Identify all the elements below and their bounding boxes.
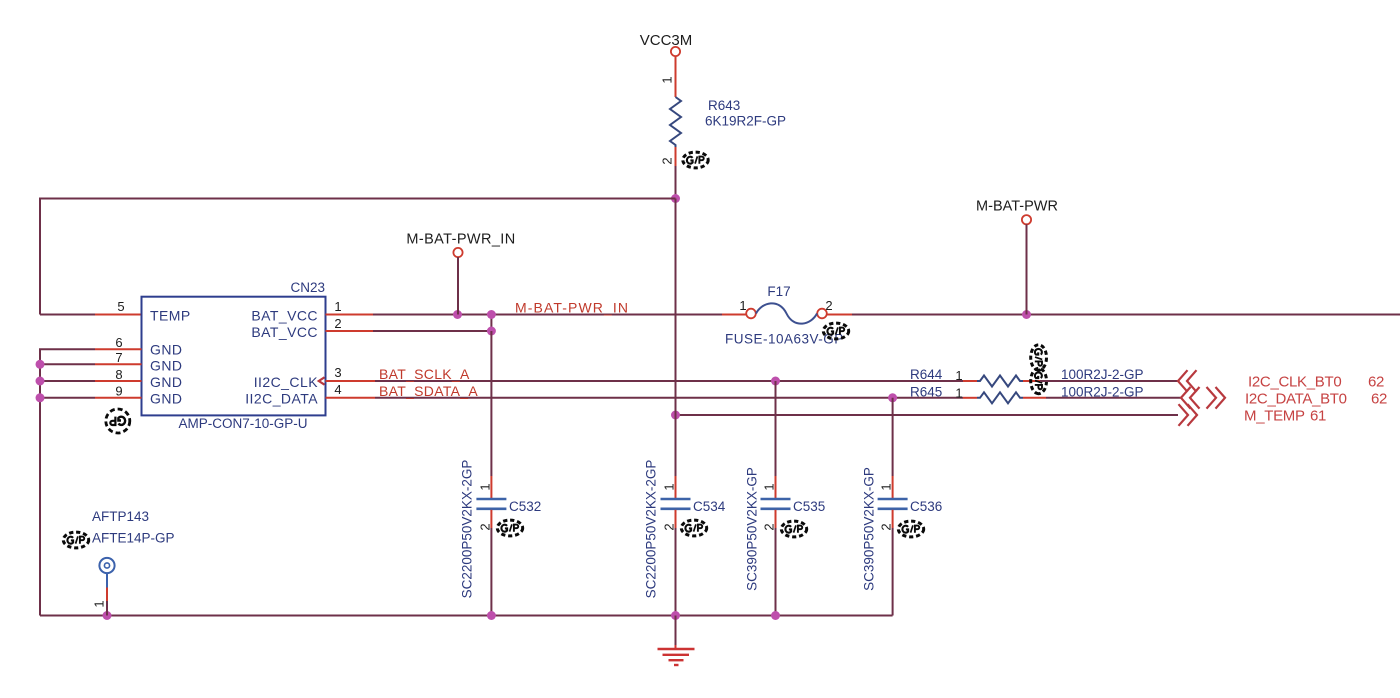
wire flag M-BAT-PWR_IN down (457, 257, 459, 315)
svg-text:BAT_VCC: BAT_VCC (251, 324, 318, 340)
svg-text:R643: R643 (708, 98, 740, 113)
GP stamp C536 (898, 521, 923, 537)
svg-text:I2C_CLK_BT0: I2C_CLK_BT0 (1248, 374, 1341, 391)
AFTP143 pin stub (106, 588, 108, 602)
wire M-BAT-PWR flag down (1026, 224, 1028, 314)
power flag M-BAT-PWR (976, 199, 1058, 225)
R644 pin2 stub (1023, 380, 1040, 382)
test point AFTP143 (99, 558, 114, 588)
node pin2/C532 (487, 327, 496, 336)
svg-text:1: 1 (762, 483, 777, 490)
svg-text:II2C_DATA: II2C_DATA (245, 391, 318, 407)
wire R644 to offpage (1040, 380, 1178, 382)
svg-text:1: 1 (477, 483, 492, 490)
wire BAT_VCC pin2 row (373, 330, 491, 332)
wire C536 to bus (892, 528, 894, 616)
wire top horizontal TEMP net (40, 199, 676, 315)
C532 pin1 stub (490, 476, 492, 498)
svg-text:C534: C534 (693, 499, 726, 514)
R645 pin1 stub (963, 397, 977, 399)
svg-text:GND: GND (150, 391, 182, 407)
svg-text:SC2200P50V2KX-2GP: SC2200P50V2KX-2GP (644, 460, 659, 599)
wire joining pin2 to rail (490, 315, 492, 332)
GP stamp C532 (497, 520, 522, 536)
svg-text:C536: C536 (910, 499, 942, 514)
C532 pin2 stub (490, 510, 492, 528)
offpage connector M_TEMP (1179, 404, 1198, 426)
GP stamp R643 (683, 152, 708, 168)
svg-text:AFTP143: AFTP143 (92, 509, 149, 524)
C535 pin1 stub (775, 476, 777, 498)
svg-text:BAT_SCLK_A: BAT_SCLK_A (379, 366, 470, 382)
offpage connector I2C_DATA_BT0 (1181, 387, 1225, 409)
svg-text:7: 7 (115, 350, 122, 365)
wire bottom GND bus (40, 615, 893, 617)
node SDATA/C536 (888, 393, 897, 402)
svg-text:1: 1 (334, 299, 341, 314)
pin 1 stub BAT_VCC (326, 314, 374, 316)
wire C536 column (892, 398, 894, 476)
wire GND row6 (40, 349, 95, 615)
svg-text:1: 1 (660, 76, 675, 83)
svg-text:II2C_CLK: II2C_CLK (254, 374, 319, 390)
svg-text:8: 8 (115, 367, 122, 382)
GP stamp F17 (823, 323, 848, 339)
wire BAT_SCLK_A row (375, 380, 963, 382)
GP stamp R644 (1031, 345, 1047, 370)
wire BAT_SDATA_A row (375, 397, 963, 399)
svg-text:SC2200P50V2KX-2GP: SC2200P50V2KX-2GP (460, 460, 475, 599)
pin 3 input arrow (319, 377, 325, 384)
svg-text:GND: GND (150, 342, 182, 358)
node rail/M-BAT-PWR (1022, 310, 1031, 319)
svg-text:1: 1 (662, 483, 677, 490)
R645 pin2 stub (1023, 397, 1046, 399)
svg-text:2: 2 (762, 523, 777, 530)
node GND row8 (36, 377, 45, 386)
GP stamp C534 (681, 520, 706, 536)
svg-text:TEMP: TEMP (150, 308, 191, 324)
pin 3 stub II2C_CLK (326, 380, 376, 382)
node bus/ground (671, 611, 680, 620)
wire C532 to bus (490, 528, 492, 616)
resistor R644 (977, 376, 1023, 387)
resistor R645 (977, 392, 1023, 403)
wire GND row8 (40, 380, 95, 382)
pin 2 stub BAT_VCC (326, 330, 374, 332)
svg-text:5: 5 (117, 299, 124, 314)
svg-text:M_TEMP: M_TEMP (1244, 408, 1305, 425)
pin 7 stub GND (95, 363, 142, 365)
C534 pin2 stub (675, 510, 677, 528)
svg-text:2: 2 (879, 523, 894, 530)
GP stamp connector (106, 409, 130, 433)
svg-text:4: 4 (334, 382, 341, 397)
wire VCC3M to R643 pin1 (675, 56, 677, 97)
node GND row9 (36, 393, 45, 402)
svg-text:AFTE14P-GP: AFTE14P-GP (92, 531, 175, 546)
wire R643 to junction (675, 166, 677, 199)
R643 pin2 stub (675, 147, 677, 166)
svg-text:3: 3 (334, 365, 341, 380)
pin 5 stub TEMP (95, 314, 142, 316)
power flag M-BAT-PWR_IN (406, 232, 515, 258)
svg-text:M-BAT-PWR: M-BAT-PWR (976, 199, 1058, 215)
svg-text:1: 1 (92, 600, 107, 607)
R644 pin1 stub (963, 380, 977, 382)
svg-text:6K19R2F-GP: 6K19R2F-GP (705, 114, 786, 129)
node SCLK/C535 (771, 377, 780, 386)
svg-text:1: 1 (955, 386, 962, 401)
svg-text:1: 1 (955, 368, 962, 383)
power flag VCC3M (640, 32, 693, 56)
pin 4 stub II2C_DATA (326, 397, 376, 399)
connector CN23 body (142, 297, 326, 416)
wire C535 to bus (775, 528, 777, 616)
svg-text:62: 62 (1371, 391, 1387, 408)
svg-text:2: 2 (825, 298, 832, 313)
capacitor C535 (761, 499, 791, 509)
wire C535 column (775, 381, 777, 476)
GP stamp AFTP143 (63, 532, 88, 548)
wire GND row9 (40, 397, 95, 399)
svg-text:9: 9 (115, 384, 122, 399)
node GND row7 (36, 360, 45, 369)
svg-text:BAT_VCC: BAT_VCC (251, 308, 318, 324)
C536 pin1 stub (892, 476, 894, 498)
node M_TEMP/C534 (671, 411, 680, 420)
wire M_TEMP row (676, 414, 1179, 416)
wire C534 column (675, 415, 677, 476)
capacitor C534 (661, 499, 691, 509)
F17 pin2 stub (827, 314, 852, 316)
svg-text:61: 61 (1310, 408, 1326, 425)
offpage connector I2C_CLK_BT0 (1178, 370, 1197, 392)
wire C532 column (490, 331, 492, 476)
svg-text:AMP-CON7-10-GP-U: AMP-CON7-10-GP-U (178, 416, 307, 431)
node rail/C532 (487, 310, 496, 319)
svg-text:M-BAT-PWR_IN: M-BAT-PWR_IN (515, 300, 629, 316)
wire C534 to bus (675, 528, 677, 616)
svg-text:CN23: CN23 (290, 280, 325, 295)
svg-text:F17: F17 (767, 284, 790, 299)
node bus/testpoint (103, 611, 112, 620)
svg-text:2: 2 (660, 157, 675, 164)
capacitor C536 (878, 499, 908, 509)
svg-text:6: 6 (115, 335, 122, 350)
svg-text:1: 1 (879, 483, 894, 490)
svg-text:2: 2 (334, 316, 341, 331)
wire C534 column upper (675, 199, 677, 416)
svg-text:2: 2 (477, 523, 492, 530)
svg-text:M-BAT-PWR_IN: M-BAT-PWR_IN (406, 232, 515, 248)
svg-text:C532: C532 (509, 499, 541, 514)
svg-text:1: 1 (739, 298, 746, 313)
node bus/C532 (487, 611, 496, 620)
wire GND row7 (40, 363, 95, 365)
wire rail fuse to right edge (852, 314, 1400, 316)
C535 pin2 stub (775, 510, 777, 528)
wire testpoint to bus (106, 601, 108, 616)
node bus/C535 (771, 611, 780, 620)
wire BAT_VCC rail to fuse (373, 314, 722, 316)
GP stamp R645 (1031, 368, 1047, 393)
capacitor C532 (476, 499, 506, 509)
ground stub (675, 645, 677, 649)
C536 pin2 stub (892, 510, 894, 528)
pin 8 stub GND (95, 380, 142, 382)
svg-text:BAT_SDATA_A: BAT_SDATA_A (379, 383, 478, 399)
svg-text:C535: C535 (793, 499, 825, 514)
svg-text:R644: R644 (910, 367, 943, 382)
svg-text:SC390P50V2KX-GP: SC390P50V2KX-GP (862, 467, 877, 591)
svg-text:FUSE-10A63V-GP: FUSE-10A63V-GP (725, 332, 844, 347)
svg-text:SC390P50V2KX-GP: SC390P50V2KX-GP (745, 467, 760, 591)
svg-text:GND: GND (150, 374, 182, 390)
svg-text:I2C_DATA_BT0: I2C_DATA_BT0 (1245, 391, 1347, 408)
node junction R643/TEMP (671, 194, 680, 203)
fuse F17 (746, 303, 827, 323)
svg-text:VCC3M: VCC3M (640, 32, 693, 49)
svg-text:GND: GND (150, 358, 182, 374)
resistor R643 (670, 97, 681, 147)
wire R645 to offpage (1046, 397, 1181, 399)
wire ground drop (675, 616, 677, 646)
svg-text:62: 62 (1368, 374, 1384, 391)
svg-text:100R2J-2-GP: 100R2J-2-GP (1061, 367, 1144, 382)
GP stamp C535 (781, 521, 806, 537)
svg-text:R645: R645 (910, 385, 942, 400)
ground symbol (658, 649, 695, 665)
C534 pin1 stub (675, 476, 677, 498)
svg-text:2: 2 (662, 523, 677, 530)
pin 9 stub GND (95, 397, 142, 399)
wire TEMP row to connector (40, 314, 95, 316)
F17 pin1 stub (722, 314, 746, 316)
node rail/flag (453, 310, 462, 319)
pin 6 stub GND (95, 348, 142, 350)
